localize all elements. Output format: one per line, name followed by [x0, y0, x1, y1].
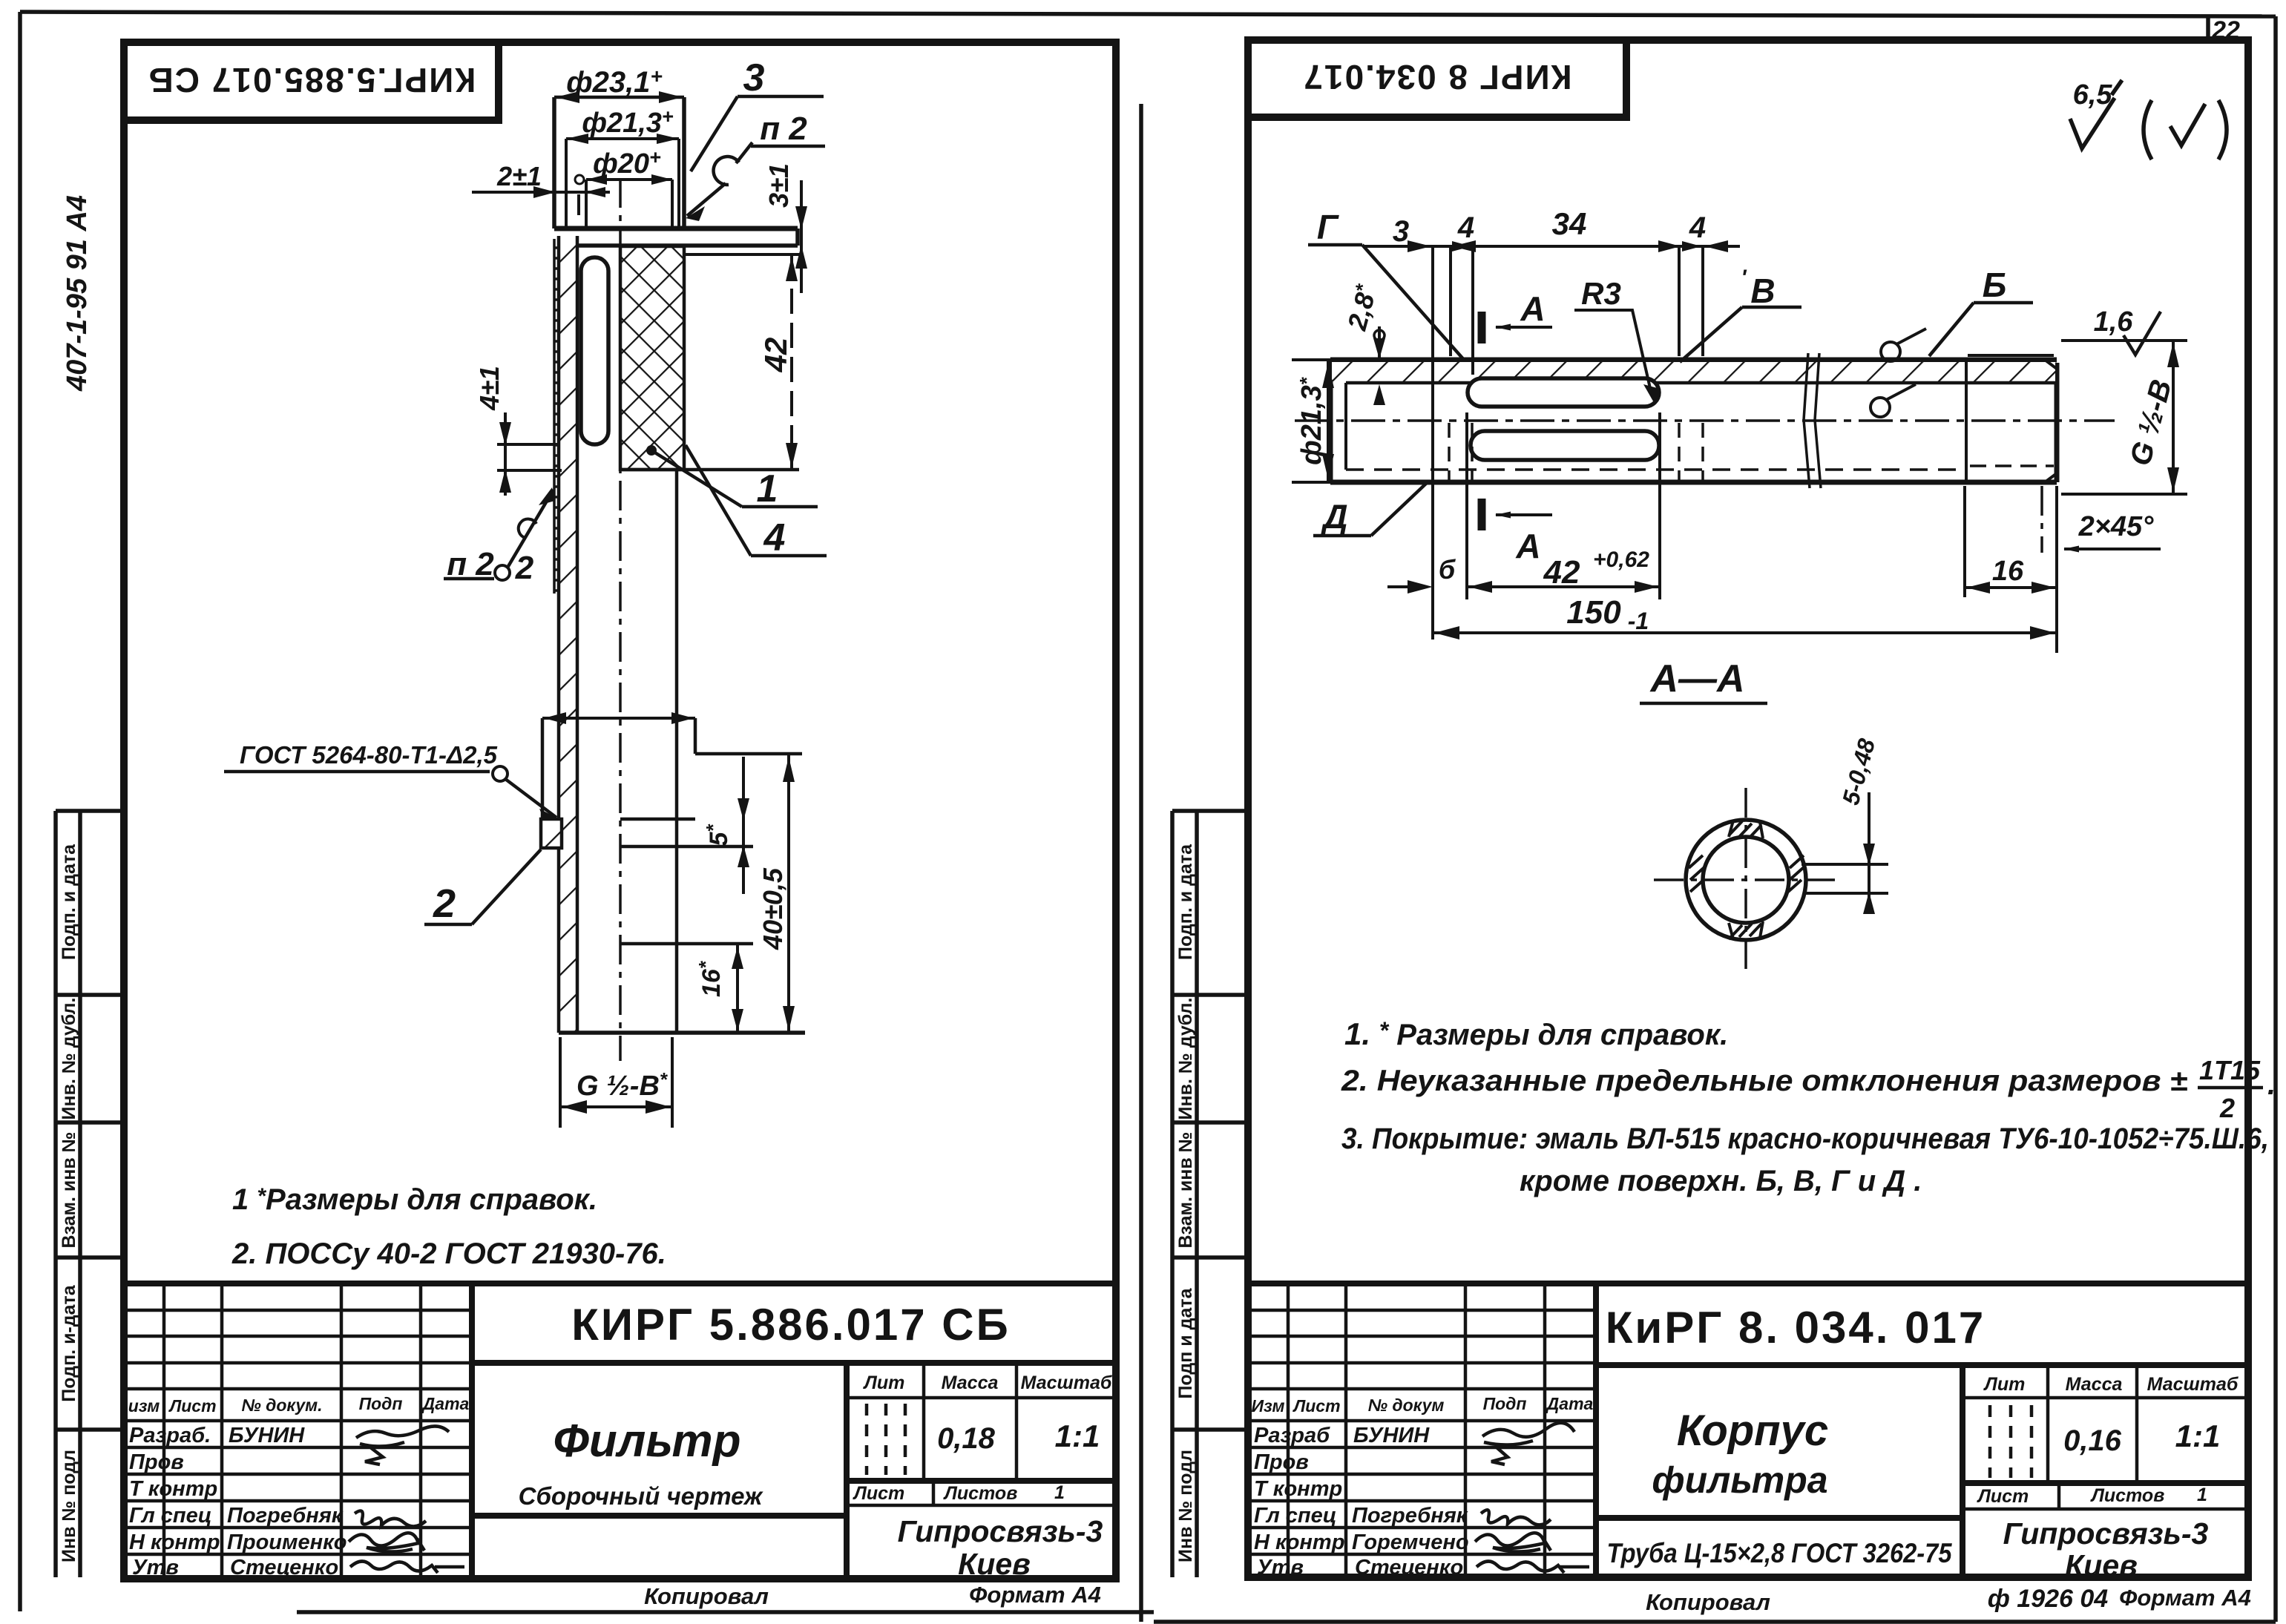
svg-text:Стеценко: Стеценко [1355, 1556, 1463, 1579]
svg-text:16: 16 [1992, 556, 2024, 587]
left sheet stamp box (rotated designation) [124, 42, 499, 120]
svg-text:Масса: Масса [942, 1372, 999, 1393]
svg-text:Сборочный чертеж: Сборочный чертеж [519, 1482, 763, 1510]
left sheet title block table [124, 1283, 1116, 1579]
svg-text:Киев: Киев [2065, 1548, 2138, 1582]
sidebar labels [59, 844, 79, 1562]
left sheet frame [124, 42, 1116, 1579]
svg-text:№ докум: № докум [1368, 1395, 1445, 1415]
svg-text:4±1: 4±1 [474, 366, 505, 411]
svg-text:Труба Ц-15×2,8 ГОСТ 3262-75: Труба Ц-15×2,8 ГОСТ 3262-75 [1607, 1538, 1953, 1568]
svg-text:А: А [1515, 527, 1540, 565]
svg-text:150: 150 [1566, 594, 1621, 631]
svg-text:КиРГ 8. 034. 017: КиРГ 8. 034. 017 [1606, 1303, 1986, 1352]
inner bore hidden line [1346, 468, 1966, 471]
tube outline [1330, 360, 2057, 482]
svg-text:3. Покрытие: эмаль ВЛ-515 кр: 3. Покрытие: эмаль ВЛ-515 красно-коричне… [1341, 1122, 2269, 1155]
right title block table [1248, 1283, 2248, 1577]
svg-text:Инв. № дубл.: Инв. № дубл. [59, 998, 79, 1120]
svg-text:Т контр: Т контр [129, 1477, 217, 1501]
svg-text:0,16: 0,16 [2063, 1424, 2122, 1457]
svg-text:ф23,1+: ф23,1+ [566, 65, 663, 99]
svg-text:ГОСТ 5264-80-Т1-Δ2,5: ГОСТ 5264-80-Т1-Δ2,5 [240, 741, 498, 769]
svg-text:2×45°: 2×45° [2078, 511, 2155, 542]
svg-text:Г: Г [1317, 208, 1339, 246]
svg-text:Лит: Лит [1983, 1374, 2026, 1395]
svg-text:Формат А4: Формат А4 [2119, 1585, 2251, 1611]
svg-text:407-1-95 91 А4: 407-1-95 91 А4 [62, 195, 93, 392]
svg-text:2: 2 [515, 550, 534, 586]
hidden verticals [1449, 423, 1703, 481]
svg-text:Подп: Подп [1483, 1394, 1527, 1413]
svg-text:Горемчено: Горемчено [1352, 1531, 1469, 1554]
svg-text:Изм: Изм [1252, 1396, 1285, 1416]
weld seam square [541, 819, 562, 848]
svg-text:Н контр: Н контр [1254, 1531, 1344, 1554]
svg-text:0,18: 0,18 [937, 1422, 996, 1455]
svg-text:1: 1 [757, 467, 778, 510]
bottom of tube [559, 1030, 805, 1035]
svg-text:БУНИН: БУНИН [229, 1424, 305, 1447]
svg-text:ф21,3*: ф21,3* [1295, 376, 1327, 465]
left wall (hatched strip) [559, 236, 577, 1033]
right sheet sidebar [1172, 811, 1248, 1577]
svg-text:п 2: п 2 [447, 546, 494, 582]
dim 16 [1965, 486, 2057, 653]
svg-text:Лист: Лист [1292, 1396, 1340, 1416]
svg-text:Пров: Пров [129, 1450, 184, 1474]
svg-text:КИРГ 8 034.017: КИРГ 8 034.017 [1302, 58, 1571, 96]
svg-text:Масштаб: Масштаб [2147, 1374, 2239, 1395]
svg-text:А: А [1520, 289, 1545, 328]
svg-text:Проименко: Проименко [227, 1531, 347, 1554]
svg-text:': ' [1741, 266, 1747, 290]
svg-text:Т контр: Т контр [1254, 1477, 1342, 1501]
svg-text:Масштаб: Масштаб [1021, 1372, 1113, 1393]
cap (coupling) outline [554, 97, 684, 229]
svg-text:Киев: Киев [958, 1547, 1031, 1581]
dim 5-0.48 on section [1801, 792, 1888, 914]
slot window [581, 257, 608, 444]
svg-text:1:1: 1:1 [2175, 1418, 2221, 1453]
svg-text:Дата: Дата [1546, 1394, 1594, 1413]
section A-A marks [1478, 312, 1486, 343]
svg-text:1,6: 1,6 [2094, 306, 2134, 338]
svg-text:Инв № подл: Инв № подл [59, 1450, 79, 1562]
left sheet sidebar boxes [56, 811, 124, 1577]
svg-text:Подп и дата: Подп и дата [1175, 1287, 1196, 1398]
svg-text:п 2: п 2 [760, 111, 807, 147]
svg-text:Н контр: Н контр [129, 1531, 220, 1554]
svg-text:40±0,5: 40±0,5 [758, 867, 788, 950]
svg-text:Подп. и-дата: Подп. и-дата [59, 1284, 79, 1401]
svg-text:Гипросвязь-3: Гипросвязь-3 [2003, 1516, 2209, 1551]
dim 5* [742, 757, 745, 894]
svg-text:Разраб: Разраб [1254, 1424, 1330, 1447]
svg-text:кроме поверхн. Б, В, Г и Д .: кроме поверхн. Б, В, Г и Д . [1520, 1165, 1922, 1197]
svg-text:Погребняк: Погребняк [1352, 1504, 1468, 1528]
tube body below mesh [675, 470, 679, 1033]
svg-text:изм: изм [128, 1396, 160, 1416]
svg-text:Разраб.: Разраб. [129, 1424, 211, 1447]
svg-text:Фильтр: Фильтр [553, 1416, 740, 1467]
svg-text:№ докум.: № докум. [241, 1395, 322, 1415]
Lit cell dashes [867, 1404, 905, 1475]
mesh edge ladder strip [554, 239, 565, 594]
svg-text:Погребняк: Погребняк [227, 1504, 344, 1528]
svg-text:3: 3 [743, 56, 765, 99]
svg-text:Гл спец: Гл спец [129, 1504, 212, 1528]
svg-text:1 *Размеры для справок.: 1 *Размеры для справок. [232, 1183, 597, 1216]
svg-text:б: б [1439, 554, 1456, 585]
svg-text:Листов: Листов [2090, 1485, 2165, 1506]
svg-text:Масса: Масса [2066, 1374, 2123, 1395]
svg-text:КИРГ.5.885.017 СБ: КИРГ.5.885.017 СБ [148, 61, 476, 99]
dim 42 [790, 254, 793, 470]
svg-text:Инв № подл: Инв № подл [1175, 1450, 1196, 1562]
svg-text:34: 34 [1552, 206, 1587, 241]
thread crest right end [1968, 354, 2054, 357]
mesh element (cross hatch) [620, 246, 684, 470]
pos 1 label [646, 445, 657, 456]
svg-text:Гипросвязь-3: Гипросвязь-3 [898, 1514, 1103, 1548]
top dimension chain [1364, 246, 1740, 375]
dim f20 [586, 180, 672, 226]
svg-text:22: 22 [2211, 16, 2240, 45]
svg-text:Копировал: Копировал [644, 1583, 769, 1609]
svg-text:Утв: Утв [132, 1556, 179, 1579]
42 dim extension top [680, 253, 803, 256]
svg-text:Подп. и дата: Подп. и дата [1175, 844, 1196, 960]
page number 22 box [2206, 16, 2210, 42]
svg-text:G ½-B*: G ½-B* [577, 1068, 669, 1102]
dim f23.1 [554, 96, 684, 99]
svg-text:4: 4 [1457, 211, 1474, 244]
dim 16* [736, 945, 739, 1033]
svg-text:Лист: Лист [1977, 1486, 2029, 1507]
svg-text:Лист: Лист [853, 1483, 905, 1504]
svg-text:+0,62: +0,62 [1593, 548, 1649, 572]
svg-text:42: 42 [758, 338, 793, 373]
svg-text:6,5: 6,5 [2073, 79, 2113, 111]
flange plate [554, 226, 798, 231]
svg-text:4: 4 [763, 516, 786, 559]
svg-text:-1: -1 [1628, 608, 1649, 634]
svg-text:Пров: Пров [1254, 1450, 1309, 1474]
solder plug lines [542, 718, 802, 944]
svg-text:42: 42 [1543, 554, 1580, 591]
top wall hatch band [1332, 362, 2055, 381]
break marks [1804, 353, 1810, 488]
section circle [1686, 820, 1806, 940]
svg-text:Дата: Дата [421, 1394, 470, 1413]
pos 4 label [686, 445, 751, 556]
dim 40+-0.5 [787, 755, 790, 1033]
svg-text:А—А: А—А [1649, 657, 1744, 700]
svg-text:1:1: 1:1 [1055, 1418, 1100, 1453]
svg-text:Взам. инв №: Взам. инв № [59, 1131, 79, 1248]
svg-text:Гл спец: Гл спец [1254, 1504, 1337, 1528]
svg-text:2: 2 [433, 881, 456, 926]
centre axis [1295, 419, 2115, 422]
svg-text:2: 2 [2219, 1093, 2235, 1123]
svg-text:Утв: Утв [1257, 1556, 1304, 1579]
thread G1/2-B bottom [560, 1037, 672, 1128]
right sheet frame [1248, 40, 2248, 1577]
svg-text:1: 1 [2197, 1485, 2207, 1505]
svg-text:2. ПОССу 40-2 ГОСТ 21930-76.: 2. ПОССу 40-2 ГОСТ 21930-76. [231, 1237, 666, 1270]
roughness circles [1881, 342, 1900, 361]
G1/2-B dimension right [2061, 341, 2187, 494]
svg-text:Лит: Лит [863, 1372, 905, 1393]
mid dimension across tube [542, 717, 695, 720]
svg-text:1. * Размеры для справок.: 1. * Размеры для справок. [1344, 1016, 1728, 1051]
centre axis [619, 178, 622, 1061]
dim 42+0.62 [1467, 412, 1660, 599]
dim 150-1 [1433, 631, 2057, 634]
svg-text:1Т15: 1Т15 [2199, 1055, 2261, 1085]
svg-text:ф21,3+: ф21,3+ [582, 105, 674, 139]
svg-text:Стеценко: Стеценко [230, 1556, 338, 1579]
svg-text:1: 1 [1054, 1482, 1065, 1503]
svg-text:КИРГ 5.886.017 СБ: КИРГ 5.886.017 СБ [571, 1300, 1011, 1350]
svg-text:фильтра: фильтра [1652, 1459, 1827, 1501]
svg-text:3±1: 3±1 [763, 163, 794, 208]
svg-text:Взам. инв №: Взам. инв № [1175, 1131, 1196, 1248]
svg-text:Б: Б [1983, 266, 2007, 304]
svg-text:R3: R3 [1581, 276, 1621, 311]
svg-text:Листов: Листов [943, 1483, 1018, 1504]
svg-text:Подп: Подп [359, 1394, 403, 1413]
right sheet stamp box [1248, 40, 1626, 117]
slots [1468, 378, 1659, 407]
svg-text:4: 4 [1689, 211, 1706, 244]
svg-text:2. Неуказанные предельные от: 2. Неуказанные предельные отклонения раз… [1341, 1065, 2187, 1097]
svg-text:Инв. № дубл.: Инв. № дубл. [1175, 998, 1196, 1120]
svg-text:БУНИН: БУНИН [1353, 1424, 1430, 1447]
mesh bottom line [620, 468, 799, 472]
svg-text:Лист: Лист [168, 1396, 216, 1416]
svg-text:Формат А4: Формат А4 [969, 1582, 1101, 1608]
signatures squiggles [349, 1426, 464, 1573]
svg-text:Подп. и дата: Подп. и дата [59, 844, 79, 960]
svg-text:Д: Д [1320, 497, 1347, 536]
svg-text:3: 3 [1393, 215, 1409, 248]
svg-text:.: . [2267, 1068, 2276, 1101]
dim f21.3 [566, 139, 679, 226]
svg-text:Копировал: Копировал [1646, 1589, 1770, 1615]
svg-text:Корпус: Корпус [1677, 1407, 1828, 1455]
svg-text:ф 1926 04: ф 1926 04 [1988, 1585, 2109, 1613]
svg-text:В: В [1750, 272, 1775, 310]
